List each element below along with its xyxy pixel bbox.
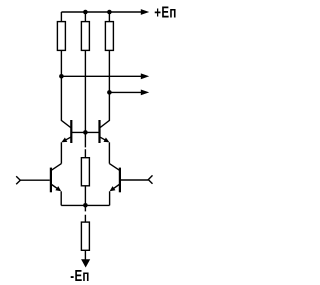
transistor VT3 emitter diagonal [51,184,60,190]
node: common base junction [83,130,88,135]
wire: R4 bottom to emitter rail [84,186,86,206]
wire: VT3 base lead [20,179,50,181]
arrowhead VT1 emitter [61,137,67,142]
wire: output line A [61,75,141,77]
transistor VT3 collector diagonal [51,164,62,171]
wire: output line B [109,91,141,93]
wire: +supply rail [61,11,141,13]
resistor R1 [57,22,65,51]
arrowhead output A [141,73,149,79]
resistor R2 [81,22,89,51]
node: emitter rail/R4 junction [83,203,88,208]
wire: VT3 emitter down [60,191,62,205]
transistor VT1 base bar [70,120,72,143]
wire: R1 bottom to VT1 collector diagonal [61,50,71,128]
resistor R4 [81,158,89,186]
transistor VT4 base bar [119,168,121,193]
arrowhead output B [141,90,149,96]
input fork left [16,176,20,184]
wire: common base line VT1-VT2 [71,131,99,133]
resistor R5 [81,222,89,250]
wire: emitter common rail [61,204,109,206]
transistor VT2 emitter diagonal [100,137,109,142]
wire: R5 bottom to -supply arrow [84,250,86,260]
wire: rail to R3 top [108,12,110,22]
wire: VT4 base lead [121,179,148,181]
wire: base node to R4 top (with break) [84,132,86,157]
arrowhead VT4 emitter [110,186,116,191]
transistor VT1 emitter diagonal [63,137,72,142]
wire: rail to R2 top [84,12,86,22]
node: rail junction R2 [83,10,88,15]
arrowhead +supply [141,9,149,15]
arrowhead VT2 emitter [103,137,109,142]
wire: VT2 emitter down [108,142,110,163]
wire: R3 bottom to VT2 collector diagonal [100,50,110,128]
input fork right [148,175,152,183]
arrowhead VT3 emitter [55,186,61,191]
node: R1/output A junction [59,74,64,79]
node: R3/output B junction [107,90,112,95]
svg-text:+Eп: +Eп [154,4,176,21]
wire: rail to R1 top [60,12,62,22]
transistor VT4 collector diagonal [109,164,120,171]
node: rail junction R3 [107,10,112,15]
transistor VT2 base bar [98,120,100,143]
arrowhead -supply (down) [81,259,90,267]
resistor R3 [105,22,113,51]
transistor VT3 base bar [50,168,52,193]
transistor VT4 emitter diagonal [111,184,120,190]
wire: R2 bottom to base node [84,50,86,132]
svg-text:-Eп: -Eп [70,268,89,285]
wire: VT1 emitter down [60,142,62,163]
wire: emitter rail to R5 top (with break) [84,205,86,222]
wire: VT4 emitter down [109,191,111,205]
